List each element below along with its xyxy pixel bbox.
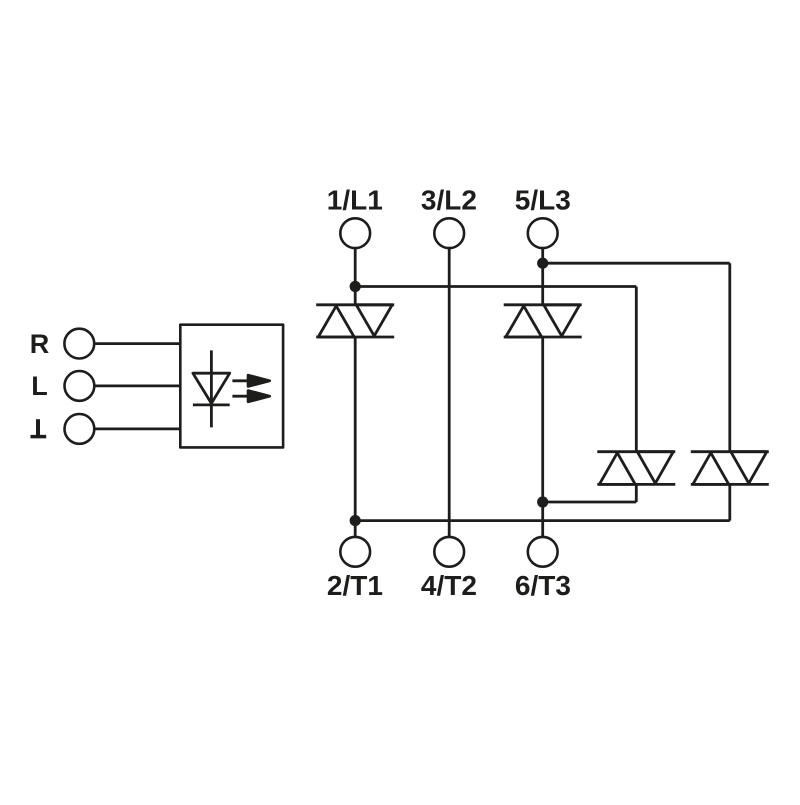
terminal 6/T3 circle bbox=[528, 537, 558, 567]
wire horizontal triac Q4 to T1 node bbox=[355, 519, 730, 522]
terminal R circle bbox=[64, 329, 94, 359]
ground symbol bbox=[31, 419, 47, 436]
wire horizontal from L3 node to triac Q4 branch bbox=[543, 262, 730, 265]
terminal 1/L1 circle bbox=[340, 218, 370, 248]
wire L3 vertical upper bbox=[541, 248, 544, 304]
svg-text:4/T2: 4/T2 bbox=[421, 570, 477, 601]
triac Q1 on L1 bbox=[316, 305, 394, 337]
svg-text:3/L2: 3/L2 bbox=[421, 185, 477, 216]
wire below triac Q4 bbox=[728, 484, 731, 520]
terminal ground circle bbox=[65, 414, 95, 444]
wire vertical branch into triac Q4 bbox=[728, 263, 731, 452]
svg-text:6/T3: 6/T3 bbox=[515, 570, 571, 601]
svg-text:L: L bbox=[31, 371, 48, 401]
LED light arrow 1 bbox=[232, 379, 250, 382]
node L1 junction bbox=[350, 281, 361, 292]
LED light arrow 2 bbox=[232, 395, 250, 398]
svg-text:2/T1: 2/T1 bbox=[327, 570, 383, 601]
wire L1 vertical upper bbox=[354, 248, 357, 304]
svg-text:5/L3: 5/L3 bbox=[515, 185, 571, 216]
terminal 5/L3 circle bbox=[528, 218, 558, 248]
wire horizontal from L1 node to triac Q3 branch bbox=[355, 285, 636, 288]
triac Q3 reversing branch bbox=[597, 452, 675, 485]
wire vertical branch into triac Q3 bbox=[635, 287, 638, 452]
node T1 junction bbox=[350, 515, 361, 526]
wire L2 vertical 3/L2 to 4/T2 bbox=[448, 248, 451, 537]
wire L3 vertical lower to 6/T3 bbox=[541, 337, 544, 537]
wire horizontal triac Q3 to T3 node bbox=[543, 501, 637, 504]
LED D1 cathode bar bbox=[193, 403, 230, 406]
LED D1 vertical lead bbox=[210, 350, 213, 427]
terminal 4/T2 circle bbox=[434, 537, 464, 567]
terminal 2/T1 circle bbox=[340, 537, 370, 567]
triac Q4 reversing branch bbox=[691, 452, 769, 485]
node L3 junction bbox=[537, 258, 548, 269]
svg-text:R: R bbox=[30, 329, 50, 359]
wire below triac Q3 bbox=[635, 484, 638, 502]
wire L1 vertical lower to 2/T1 bbox=[354, 337, 357, 537]
LED D1 triangle bbox=[193, 373, 230, 403]
node T3 junction bbox=[537, 496, 548, 507]
wire R to optocoupler box bbox=[95, 342, 180, 345]
optocoupler box U1 bbox=[180, 325, 283, 448]
wire ground to optocoupler box bbox=[95, 427, 180, 430]
terminal L circle bbox=[65, 371, 95, 401]
svg-text:1/L1: 1/L1 bbox=[327, 185, 383, 216]
triac Q2 on L3 bbox=[504, 305, 582, 337]
wire L to optocoupler box bbox=[95, 384, 180, 387]
terminal 3/L2 circle bbox=[434, 218, 464, 248]
